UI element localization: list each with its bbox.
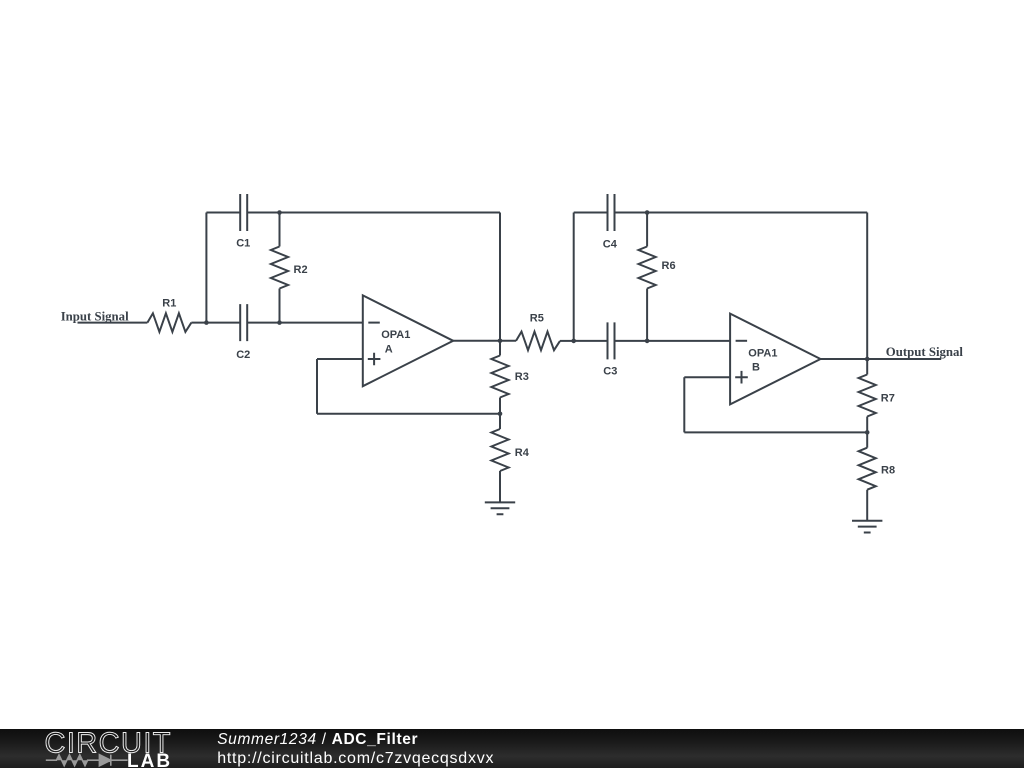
junction signal wire R6 [645, 339, 650, 344]
resistor R1 [147, 313, 191, 332]
wire R2 top lead [279, 213, 281, 247]
svg-text:C3: C3 [603, 366, 617, 378]
wire R7 bottom lead [866, 417, 868, 433]
wire node B to C3 [574, 340, 608, 342]
wire op-amp A output [453, 340, 516, 342]
junction top wire R2 [277, 210, 282, 215]
svg-text:http://circuitlab.com/c7zvqecq: http://circuitlab.com/c7zvqecqsdxvx [217, 750, 494, 767]
junction stage2 input node [571, 339, 576, 344]
wire plus input B [684, 376, 730, 378]
node Input Signal flag wire [78, 322, 148, 324]
junction op-amp A output node [498, 339, 503, 344]
svg-text:Input Signal: Input Signal [61, 309, 129, 323]
wire top right vertical down to output node [499, 213, 501, 341]
svg-text:OPA1: OPA1 [748, 347, 777, 359]
wire R7 top lead [866, 359, 868, 375]
wire feedback B bottom [684, 431, 867, 433]
op-amp U1A minus sign [368, 322, 380, 324]
op-amp U1B [730, 314, 820, 405]
wire R8 top lead [866, 432, 868, 447]
svg-text:Summer1234 / ADC_Filter: Summer1234 / ADC_Filter [217, 731, 418, 748]
svg-text:R8: R8 [881, 464, 895, 476]
wire top left to C4 [574, 212, 608, 214]
svg-text:R7: R7 [881, 392, 895, 404]
wire op-amp B output to Output Signal [821, 358, 942, 360]
wire R3 top lead [499, 341, 501, 356]
svg-text:Output Signal: Output Signal [886, 345, 964, 359]
resistor R5 [516, 332, 560, 351]
wire node B vertical [573, 213, 575, 341]
logo resistor-diode glyph [46, 755, 128, 766]
wire stage2 top right vertical down [866, 213, 868, 360]
junction feedback A node [498, 412, 503, 417]
resistor R8 [859, 448, 876, 490]
wire feedback A left vertical [316, 359, 318, 414]
junction feedback B node [865, 430, 870, 435]
capacitor C1 [240, 194, 247, 231]
capacitor C4 [608, 194, 615, 231]
ground GND1 [485, 502, 515, 514]
resistor R3 [491, 356, 508, 398]
op-amp U1B plus sign [735, 371, 748, 384]
resistor R7 [859, 375, 876, 417]
op-amp U1B minus sign [736, 340, 748, 342]
junction node after R1 [204, 320, 209, 325]
wire R5 right lead [560, 340, 574, 342]
wire feedback A bottom [317, 413, 500, 415]
capacitor C2 [240, 304, 247, 341]
wire R1 to C2 [191, 322, 240, 324]
wire R4 top lead [499, 414, 501, 429]
capacitor C3 [608, 322, 615, 359]
wire C1 to top right corner [247, 212, 500, 214]
op-amp U1A plus sign [368, 353, 381, 366]
resistor R6 [639, 247, 656, 289]
svg-text:A: A [385, 344, 393, 356]
wire R6 bottom lead [646, 289, 648, 341]
wire R8 to ground [866, 490, 868, 521]
wire C3 to op-amp U1B minus input [615, 340, 731, 342]
svg-text:R6: R6 [662, 260, 676, 272]
svg-text:C4: C4 [603, 239, 618, 251]
junction signal wire R2 [277, 320, 282, 325]
resistor R4 [491, 429, 508, 471]
wire R3 bottom lead [499, 398, 501, 414]
ground GND2 [852, 521, 882, 533]
junction top wire R6 [645, 210, 650, 215]
wire node A vertical [205, 213, 207, 323]
wire C4 to top right corner stage2 [615, 212, 868, 214]
svg-text:C1: C1 [236, 237, 250, 249]
wire R4 to ground [499, 471, 501, 502]
svg-text:LAB: LAB [127, 751, 172, 768]
wire R2 bottom lead [279, 289, 281, 323]
svg-text:C2: C2 [236, 349, 250, 361]
wire R6 top lead [646, 213, 648, 247]
svg-text:R5: R5 [530, 312, 544, 324]
wire top left to C1 [206, 212, 240, 214]
svg-text:OPA1: OPA1 [381, 329, 410, 341]
resistor R2 [271, 247, 288, 289]
junction op-amp B output node [865, 357, 870, 362]
op-amp U1A [363, 295, 453, 386]
wire feedback B left vertical [683, 377, 685, 432]
svg-text:R4: R4 [515, 447, 530, 459]
svg-text:R1: R1 [162, 298, 176, 310]
svg-text:R2: R2 [294, 264, 308, 276]
wire plus input A [317, 358, 363, 360]
wire C2 to op-amp U1A minus input [247, 322, 363, 324]
svg-text:R3: R3 [515, 371, 529, 383]
svg-text:B: B [752, 362, 760, 374]
footer bar [0, 729, 1024, 768]
